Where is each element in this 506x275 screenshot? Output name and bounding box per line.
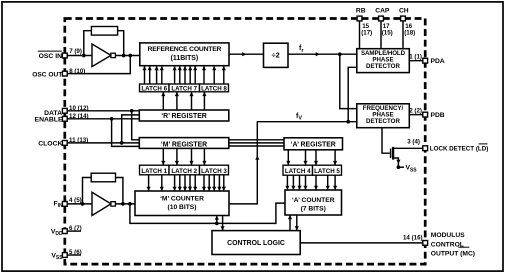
svg-text:CH: CH	[399, 7, 409, 14]
arrow on Q1 source	[396, 160, 400, 164]
M register block	[139, 138, 229, 149]
node ENABLE branch	[110, 117, 114, 121]
wire inverter output to M counter	[115, 203, 135, 205]
wire to VSS label	[398, 166, 404, 168]
svg-text:‘M’ REGISTER: ‘M’ REGISTER	[161, 141, 207, 148]
svg-text:(18): (18)	[404, 30, 415, 37]
node CLOCK branch	[120, 141, 124, 145]
node OSC IN feedback junction	[82, 54, 86, 58]
svg-text:(10 BITS): (10 BITS)	[168, 204, 197, 211]
svg-text:LATCH 3: LATCH 3	[201, 168, 227, 175]
svg-text:3 (4): 3 (4)	[407, 138, 420, 145]
wire latch to reference counter bit 5	[174, 67, 176, 85]
sample/hold phase detector block	[357, 49, 410, 73]
svg-text:REFERENCE COUNTER: REFERENCE COUNTER	[148, 46, 222, 53]
frequency/phase detector block	[357, 104, 410, 128]
wire VSS stub	[67, 254, 81, 256]
svg-text:‘A’ REGISTER: ‘A’ REGISTER	[291, 141, 336, 148]
wire ENABLE to R register	[65, 118, 140, 120]
wire fin rail to A counter	[130, 203, 285, 223]
wire latch to reference counter bit 11	[213, 67, 215, 85]
svg-text:(7 BITS): (7 BITS)	[301, 205, 326, 212]
wire latch to M counter bit 11	[218, 175, 220, 191]
latch 5 block	[313, 165, 342, 175]
svg-text:MODULUS: MODULUS	[431, 232, 465, 239]
wire inverter output to reference counter	[115, 55, 139, 57]
wire register bus 1	[229, 139, 284, 141]
svg-text:LATCH 2: LATCH 2	[171, 168, 197, 175]
pin MODULUS CONTROL	[423, 241, 428, 246]
wire CLOCK to M register	[65, 142, 140, 144]
wire Q1 drain to LOCK DETECT pin	[393, 147, 425, 149]
svg-text:10 (12): 10 (12)	[69, 105, 89, 112]
pin CLOCK	[62, 141, 67, 146]
R register block	[139, 110, 229, 121]
wire A register to latch bit 2	[305, 150, 307, 165]
M counter block	[135, 191, 229, 216]
latch 6 block	[140, 84, 170, 92]
wire latch to M counter bit 6	[189, 175, 191, 191]
wire latch to A counter bit 4	[305, 175, 307, 189]
wire latch to reference counter bit 2	[149, 67, 151, 85]
arrow on fv vertical	[255, 156, 259, 160]
wire latch to M counter bit 1	[148, 175, 150, 191]
wire feedback left	[84, 31, 92, 56]
wire OSC OUT	[65, 56, 131, 74]
wire latch to reference counter bit 4	[161, 67, 163, 85]
wire reference counter to divide-by-2	[229, 53, 264, 55]
svg-text:8 (10): 8 (10)	[69, 68, 85, 75]
svg-text:(15): (15)	[382, 30, 393, 37]
arrow on fr rail	[316, 52, 320, 56]
A register block	[284, 138, 343, 150]
wire latch to reference counter bit 1	[144, 67, 146, 85]
wire latch to A counter bit 6	[327, 175, 329, 189]
pin ENABLE	[62, 116, 67, 121]
wire M register to latch bit 3	[191, 148, 193, 164]
resistor R2 (fin feedback)	[91, 173, 115, 182]
wire latch to M counter bit 10	[213, 175, 215, 191]
wire R register to latch 3	[191, 92, 193, 110]
svg-text:LATCH 4: LATCH 4	[285, 168, 311, 175]
reference counter block	[140, 43, 229, 66]
svg-text:LATCH 1: LATCH 1	[141, 168, 167, 175]
wire latch to A counter bit 1	[286, 175, 288, 189]
svg-text:PDB: PDB	[431, 112, 445, 119]
pin LOCK DETECT	[423, 146, 428, 151]
wire latch to M counter bit 4	[179, 175, 181, 191]
svg-text:PDA: PDA	[431, 58, 445, 65]
svg-text:LATCH 5: LATCH 5	[314, 168, 340, 175]
wire latch to M counter bit 8	[203, 175, 205, 191]
overline OSC IN	[38, 50, 62, 52]
svg-text:LOCK DETECT (LD): LOCK DETECT (LD)	[430, 145, 489, 152]
wire PDA	[409, 60, 425, 62]
wire RB pin to sample/hold	[359, 19, 361, 50]
svg-text:DETECTOR: DETECTOR	[366, 63, 400, 70]
latch 7 block	[169, 84, 200, 92]
svg-text:LATCH 7: LATCH 7	[171, 86, 197, 93]
wire FIN feedback left	[83, 178, 92, 204]
wire M register to latch bit 1	[162, 148, 164, 164]
svg-text:LATCH 8: LATCH 8	[201, 86, 227, 93]
wire OSC IN to inverter	[65, 55, 92, 57]
node feedback-output junction	[122, 54, 126, 58]
pin PDB	[423, 112, 428, 117]
overline LD	[479, 143, 488, 145]
inverter U2 (fin buffer)	[92, 192, 111, 215]
svg-text:ENABLE: ENABLE	[35, 117, 63, 124]
wire latch to A counter bit 3	[299, 175, 301, 189]
latch 8 block	[200, 84, 229, 92]
transistor Q1 gate bar	[390, 149, 392, 158]
svg-text:11 (13): 11 (13)	[69, 137, 88, 144]
wire register bus 3	[229, 145, 284, 147]
svg-text:‘A’ COUNTER: ‘A’ COUNTER	[292, 197, 335, 204]
A counter block	[285, 190, 342, 215]
wire A register to latch bit 4	[334, 150, 336, 165]
wire fr to frequency/phase detector	[340, 54, 357, 108]
wire R register to latch 4	[203, 92, 205, 110]
svg-text:7 (9): 7 (9)	[69, 48, 82, 55]
wire register bus 2	[229, 142, 284, 144]
pin PDA	[423, 58, 428, 63]
wire fv to sample/hold	[348, 67, 357, 121]
wire latch to reference counter bit 10	[203, 67, 205, 85]
wire control logic to M counter	[222, 216, 224, 231]
svg-text:14 (16): 14 (16)	[403, 235, 423, 242]
node FIN feedback junction	[81, 202, 85, 206]
svg-text:‘M’ COUNTER: ‘M’ COUNTER	[160, 195, 204, 202]
wire fv rail	[257, 121, 357, 123]
svg-text:÷2: ÷2	[272, 50, 280, 59]
wire latch to reference counter bit 3	[156, 67, 158, 85]
wire latch to A counter bit 2	[292, 175, 294, 189]
node osc-out junction	[128, 54, 132, 58]
wire CAP pin to sample/hold	[380, 19, 382, 50]
svg-text:OSC OUT: OSC OUT	[32, 72, 62, 79]
wire latch to reference counter bit 6	[179, 67, 181, 85]
overline MC	[458, 246, 469, 248]
wire CH pin to sample/hold	[402, 19, 404, 50]
svg-text:6 (7): 6 (7)	[69, 225, 82, 232]
wire PDB	[409, 114, 425, 116]
wire VDD stub	[67, 230, 81, 232]
wire fr rail	[288, 53, 357, 55]
svg-text:(17): (17)	[361, 30, 372, 37]
wire M register to latch bit 2	[176, 148, 178, 164]
node fv branch junction	[346, 120, 350, 124]
wire latch to A counter bit 7	[334, 175, 336, 189]
svg-text:OUTPUT (MC): OUTPUT (MC)	[431, 251, 475, 258]
divide-by-2 block	[264, 43, 289, 67]
svg-text:4 (5): 4 (5)	[69, 197, 82, 204]
svg-text:DETECTOR: DETECTOR	[366, 118, 400, 125]
wire latch to reference counter bit 8	[189, 67, 191, 85]
latch 3 block	[200, 165, 229, 175]
transistor Q1 channel bar	[392, 147, 394, 160]
control logic block	[212, 231, 300, 255]
node VSS connection	[397, 165, 401, 169]
pin OSC OUT	[62, 71, 67, 76]
latch 4 block	[283, 165, 313, 175]
wire fin rail into M counter	[216, 216, 218, 223]
pin RB	[357, 16, 362, 21]
wire latch to reference counter bit 9	[194, 67, 196, 85]
node fin rail junction	[128, 202, 132, 206]
wire control logic to A counter	[289, 216, 291, 231]
wire A counter to control logic	[296, 215, 298, 230]
svg-text:RB: RB	[356, 7, 366, 14]
wire FIN to inverter	[65, 203, 92, 205]
wire R register to latch 1	[162, 92, 164, 110]
node fr branch junction	[338, 52, 342, 56]
latch 1 block	[140, 165, 170, 175]
pin CAP	[379, 16, 384, 21]
wire A register to latch bit 1	[287, 150, 289, 165]
resistor R1 (osc feedback)	[91, 27, 117, 36]
svg-text:LATCH 6: LATCH 6	[141, 86, 167, 93]
svg-text:1 (1): 1 (1)	[409, 54, 422, 61]
wire DATA down to M register	[132, 111, 140, 140]
wire phase detector to transistor gate	[382, 128, 390, 154]
wire M counter output up to fv	[229, 122, 257, 204]
pin VDD	[62, 229, 67, 234]
wire latch to M counter bit 12	[223, 175, 225, 191]
wire latch to M counter bit 5	[184, 175, 186, 191]
wire Q1 source	[393, 158, 398, 167]
node DATA branch	[130, 109, 134, 113]
svg-text:2 (2): 2 (2)	[409, 108, 422, 115]
wire FIN feedback right	[116, 178, 123, 204]
svg-text:5 (6): 5 (6)	[69, 249, 82, 256]
wire DATA to R register	[65, 110, 140, 112]
svg-text:CLOCK: CLOCK	[38, 141, 62, 148]
wire modulus control output	[300, 242, 425, 244]
pin OSC IN	[62, 53, 67, 58]
pin DATA	[62, 108, 67, 113]
pin FIN	[62, 202, 67, 207]
wire R register to latch 2	[176, 92, 178, 110]
arrow on wire to divide-by-2	[242, 52, 246, 56]
svg-text:OSC IN: OSC IN	[39, 53, 63, 60]
chip boundary (dashed)	[65, 19, 425, 265]
wire latch to M counter bit 7	[194, 175, 196, 191]
wire latch to reference counter bit 7	[184, 67, 186, 85]
latch 2 block	[169, 165, 200, 175]
svg-text:‘R’ REGISTER: ‘R’ REGISTER	[161, 113, 207, 120]
node fin rail M counter branch	[215, 222, 219, 226]
wire latch to M counter bit 2	[161, 175, 163, 191]
wire feedback right	[118, 31, 124, 56]
pin VSS	[62, 253, 67, 258]
wire ENABLE down to M register	[112, 119, 140, 147]
svg-text:CAP: CAP	[375, 7, 390, 14]
svg-text:(11BITS): (11BITS)	[171, 55, 199, 62]
pin CH	[401, 16, 406, 21]
wire latch to reference counter bit 12	[223, 67, 225, 85]
svg-text:12 (14): 12 (14)	[69, 113, 89, 120]
inverter U1 (osc buffer)	[92, 44, 111, 67]
wire M register to latch bit 4	[203, 148, 205, 164]
wire CLOCK up to R register	[122, 115, 140, 143]
wire latch to A counter bit 5	[315, 175, 317, 189]
wire A register to latch bit 3	[315, 150, 317, 165]
wire latch to M counter bit 9	[208, 175, 210, 191]
node fin feedback-output junction	[121, 202, 125, 206]
wire latch to M counter bit 3	[174, 175, 176, 191]
svg-text:CONTROL LOGIC: CONTROL LOGIC	[227, 240, 285, 247]
